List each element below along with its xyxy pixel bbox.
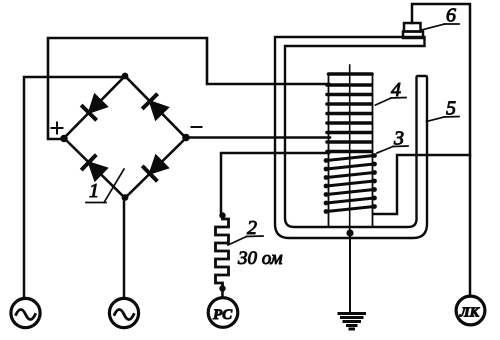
- wire: coil lower tap left and down to resistor 2: [221, 153, 329, 216]
- container / tube 5 with top bar (double-walled vessel): [275, 37, 427, 238]
- AC source G1: [11, 298, 40, 327]
- node: bridge top junction: [122, 73, 129, 80]
- wire: coil common down to ground: [349, 233, 351, 312]
- wire: resistor to РС circle: [221, 288, 224, 297]
- svg-text:ЛК: ЛК: [459, 306, 481, 321]
- device РС circle: [208, 298, 238, 328]
- node: coil common point at container bottom: [346, 229, 353, 236]
- element 6 (upper box): [404, 23, 421, 32]
- node: bridge left (+) junction: [60, 135, 68, 143]
- svg-text:РС: РС: [213, 307, 233, 323]
- node: resistor top: [219, 212, 225, 218]
- diode VD1 (top-left arm, arrow to + node): [83, 95, 107, 119]
- wire: bridge + node up over top to coil 4 upper tap: [48, 38, 329, 139]
- winding 3 (lower coil, open helix turns): [327, 156, 375, 212]
- coil bobbin side edges: [328, 74, 330, 227]
- label 5 with underline and leader: [427, 98, 460, 122]
- resistor R2 (30 Ом) meander: [216, 216, 229, 288]
- core centre line of electromagnet: [349, 65, 351, 233]
- AC source G2: [109, 298, 138, 327]
- diode VD3 (bottom-left arm, arrow to + node): [83, 156, 107, 180]
- element 6 (lower box): [403, 32, 423, 39]
- wire: bridge − node to coil mid tap: [186, 136, 330, 139]
- label 1 (bridge) with underline and leader: [86, 169, 124, 203]
- winding 3 turn end bumps: [324, 153, 377, 214]
- svg-text:30 ом: 30 ом: [237, 248, 283, 269]
- wire: bridge bottom node down to AC source G2: [123, 198, 126, 297]
- wire: AC source G1 up and to bridge top node: [24, 77, 125, 297]
- ground symbol: [339, 314, 365, 330]
- bridge 1: diamond sides: [64, 76, 186, 198]
- plus sign at + node: [52, 123, 63, 134]
- diode VD4 (bottom-right arm, arrow to bottom node): [144, 156, 168, 180]
- node: bridge right (−) junction: [182, 134, 190, 142]
- label 4 with underline and leader: [376, 79, 407, 105]
- svg-text:1: 1: [89, 180, 99, 202]
- label 3 with underline and leader: [377, 128, 408, 154]
- minus sign at − node: [192, 126, 202, 128]
- node: resistor bottom: [219, 285, 225, 291]
- label 2 (resistor) with underline and leader: [228, 217, 263, 245]
- node: bridge bottom junction: [122, 194, 129, 201]
- device ЛК circle: [456, 296, 485, 325]
- diode VD2 (top-right arm, arrow to top node): [144, 95, 168, 119]
- winding 4 (upper coil, closed turns): [327, 74, 372, 152]
- wire: element 6 up, across top, down to ЛК circle: [412, 4, 470, 296]
- wire: coil 3 bottom end to lamp line: [373, 155, 470, 214]
- label 6 with underline and leader: [422, 5, 460, 31]
